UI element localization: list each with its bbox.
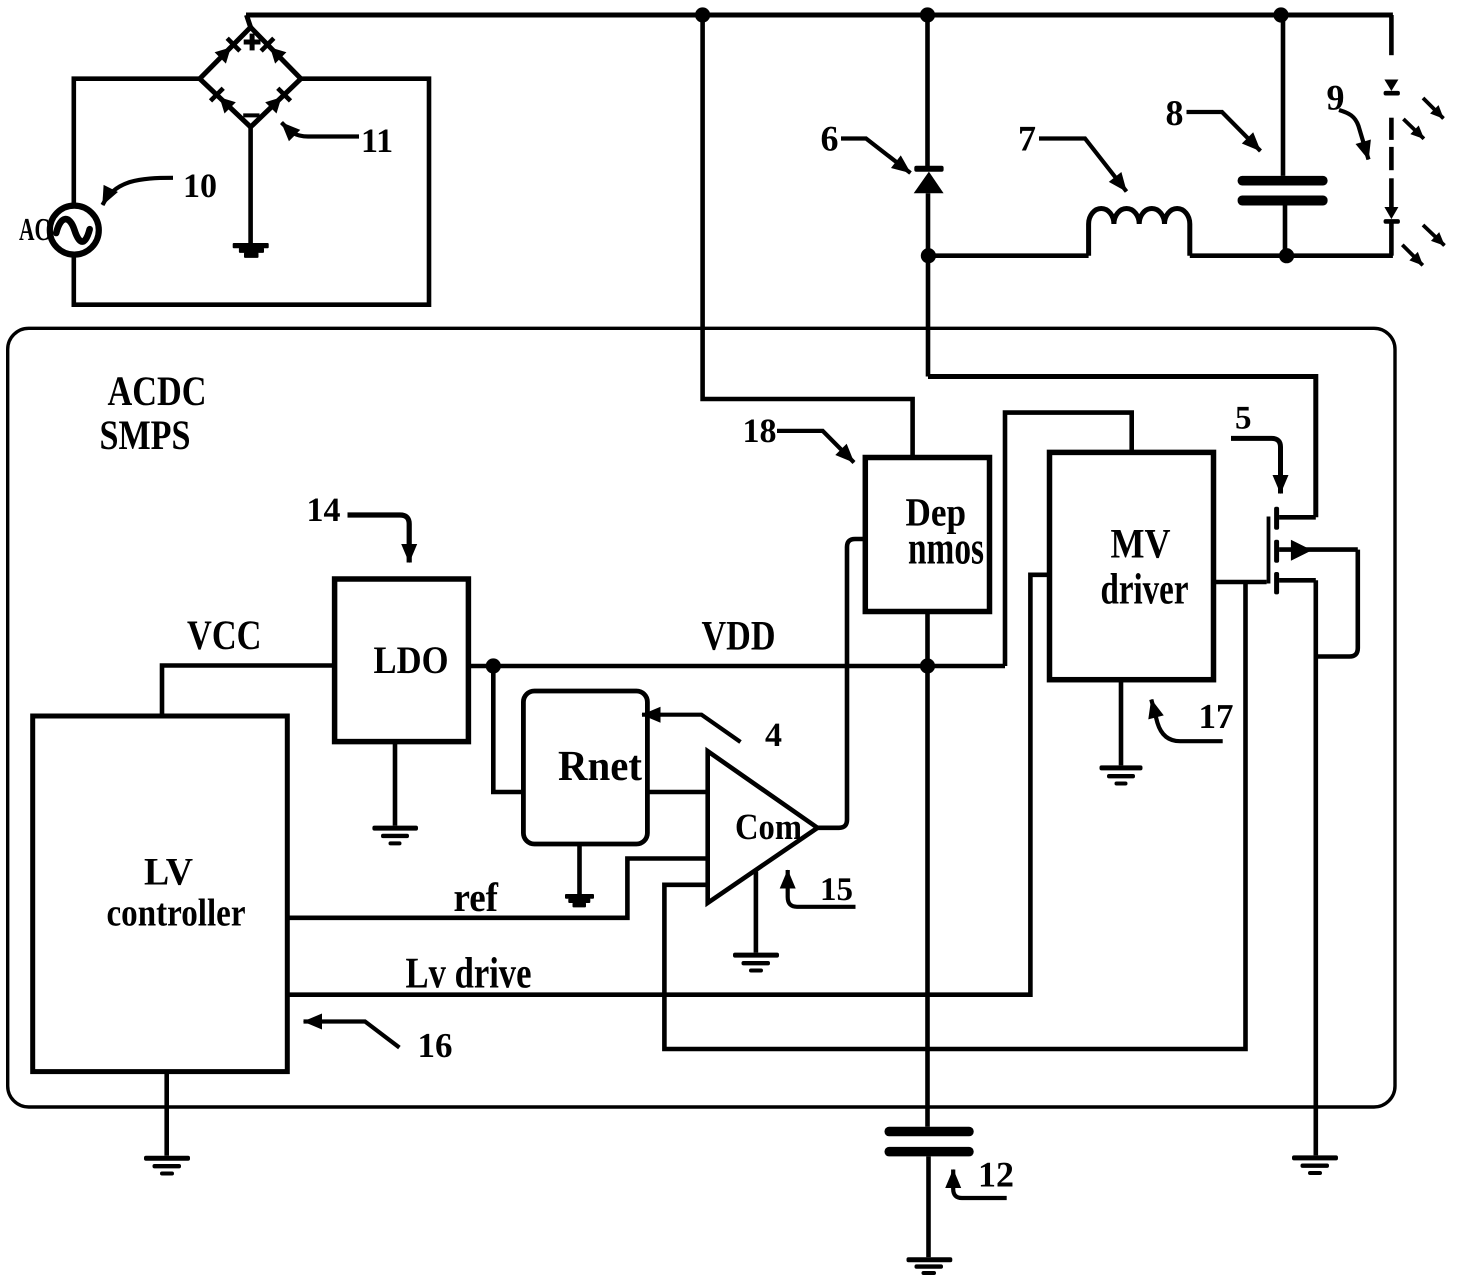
svg-text:10: 10	[183, 168, 217, 205]
svg-text:17: 17	[1199, 697, 1234, 736]
svg-text:16: 16	[418, 1026, 453, 1065]
svg-text:MV: MV	[1111, 522, 1171, 568]
svg-text:Rnet: Rnet	[558, 743, 643, 790]
svg-text:18: 18	[743, 413, 777, 450]
svg-text:7: 7	[1018, 119, 1036, 159]
svg-text:VDD: VDD	[702, 614, 776, 660]
svg-text:Lv drive: Lv drive	[406, 949, 532, 998]
svg-text:LV: LV	[144, 851, 193, 894]
svg-text:VCC: VCC	[187, 613, 262, 659]
svg-text:4: 4	[765, 717, 782, 754]
svg-text:AC: AC	[19, 211, 50, 247]
svg-text:5: 5	[1235, 401, 1252, 437]
svg-text:14: 14	[307, 492, 341, 529]
svg-text:SMPS: SMPS	[100, 413, 191, 459]
svg-text:Com: Com	[735, 807, 802, 848]
svg-text:11: 11	[361, 123, 393, 160]
svg-text:8: 8	[1166, 93, 1184, 133]
svg-text:LDO: LDO	[374, 639, 449, 682]
svg-text:ACDC: ACDC	[108, 369, 207, 415]
svg-text:15: 15	[820, 872, 853, 908]
svg-text:12: 12	[978, 1155, 1014, 1195]
svg-text:driver: driver	[1101, 565, 1189, 614]
svg-text:controller: controller	[107, 892, 246, 935]
svg-text:nmos: nmos	[908, 523, 984, 575]
svg-text:ref: ref	[454, 874, 500, 920]
svg-text:6: 6	[821, 119, 839, 159]
svg-text:9: 9	[1327, 78, 1345, 118]
